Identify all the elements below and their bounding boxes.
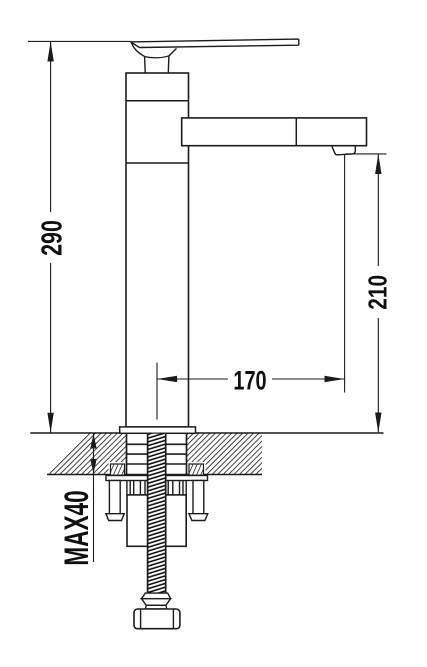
rod end flare xyxy=(142,593,171,599)
supply nut xyxy=(134,609,180,629)
shank wall left xyxy=(126,433,128,475)
stud left xyxy=(109,481,120,514)
seal washer left xyxy=(111,464,125,475)
base flange xyxy=(120,427,196,433)
countertop recess clearance right xyxy=(187,462,206,474)
handle base flare right edge xyxy=(169,48,177,55)
extension line top (290 reference at lever top) xyxy=(28,40,131,42)
arrowhead MAX40 up xyxy=(90,434,96,449)
threaded rod xyxy=(148,434,166,593)
aerator nozzle xyxy=(332,147,355,155)
handle base flare left edge xyxy=(132,43,145,57)
svg-text:210: 210 xyxy=(363,275,391,310)
seal washer right xyxy=(189,464,204,475)
dimension line 170 xyxy=(157,378,345,380)
handle waist line xyxy=(145,56,169,58)
handle stem xyxy=(144,57,147,73)
dimension line 210 xyxy=(377,155,379,433)
spacer collar lines xyxy=(127,481,186,495)
stud right foot xyxy=(189,514,208,521)
spout section line xyxy=(295,118,297,146)
svg-text:MAX40: MAX40 xyxy=(58,490,96,565)
supply nut chamfer left xyxy=(140,609,142,629)
extension line faucet axis xyxy=(156,363,158,420)
dimension line 290 xyxy=(50,42,52,433)
countertop bottom line xyxy=(47,474,262,476)
arrowhead 290 top xyxy=(47,41,53,61)
arrowhead 210 top xyxy=(375,154,381,174)
mounting nut box xyxy=(127,495,186,546)
arrowhead 210 bottom xyxy=(375,413,381,433)
arrowhead 170 left xyxy=(157,376,177,382)
rod end cone xyxy=(142,599,171,606)
spout xyxy=(182,118,367,146)
svg-text:290: 290 xyxy=(37,220,69,256)
stud left foot xyxy=(106,514,124,521)
extension line spout outlet axis xyxy=(344,155,346,393)
supply nut chamfer right xyxy=(172,609,174,629)
arrowhead 290 bottom xyxy=(47,413,53,433)
faucet body xyxy=(126,73,189,427)
shank inner lines xyxy=(127,444,187,464)
countertop hatch right block xyxy=(187,433,263,475)
rod end ring xyxy=(145,605,167,609)
mounting plate xyxy=(106,476,208,481)
shank wall right xyxy=(186,433,188,475)
body section line upper xyxy=(126,100,189,102)
arrowhead MAX40 down xyxy=(90,459,96,474)
lever handle xyxy=(131,39,299,47)
dimension line MAX40 xyxy=(93,433,95,562)
countertop recess clearance left xyxy=(109,462,127,474)
countertop top line xyxy=(30,432,383,434)
arrowhead 170 right xyxy=(325,376,345,382)
body section line lower xyxy=(126,162,189,164)
stud right xyxy=(193,481,204,514)
svg-text:170: 170 xyxy=(233,366,266,395)
extension line aerator outlet level xyxy=(346,153,387,155)
countertop hatch left block xyxy=(47,433,127,475)
